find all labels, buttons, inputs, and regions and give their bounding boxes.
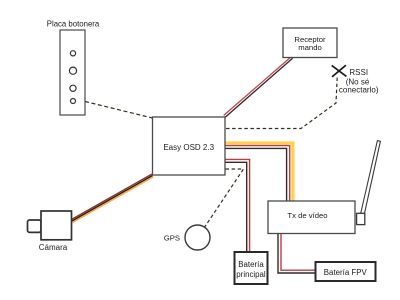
wire yellow: camera ribbon to Easy OSD	[73, 177, 154, 223]
camera lens	[28, 220, 42, 232]
svg-text:conectarlo): conectarlo)	[339, 86, 379, 95]
svg-text:mando: mando	[298, 43, 322, 52]
component box: Easy OSD 2.3	[153, 117, 226, 175]
svg-text:Batería FPV: Batería FPV	[324, 268, 368, 277]
wire red: Easy OSD to Bateria principal	[225, 159, 250, 252]
component box: Tx de video	[268, 201, 355, 234]
svg-text:GPS: GPS	[164, 234, 180, 243]
antenna rod	[361, 141, 381, 214]
component circle: GPS	[185, 225, 210, 250]
svg-text:RSSI: RSSI	[349, 68, 368, 77]
wire dashed: RSSI to Easy OSD (not connected)	[226, 78, 338, 129]
component box: Bateria FPV	[316, 262, 376, 281]
svg-text:principal: principal	[236, 270, 266, 279]
button hole 4	[71, 99, 76, 104]
wire yellow halo: Easy OSD to Tx de video	[225, 143, 293, 201]
component box: Bateria principal	[235, 252, 268, 284]
wire dashed: Placa botonera to Easy OSD	[85, 102, 153, 119]
wire red: Easy OSD to Tx de video	[225, 146, 290, 201]
button hole 1	[70, 51, 75, 56]
button hole 3	[70, 85, 76, 91]
svg-text:Easy OSD 2.3: Easy OSD 2.3	[163, 143, 214, 152]
wire red: Tx de video to Bateria FPV	[281, 234, 315, 270]
component box: Receptor mando	[283, 28, 337, 58]
svg-text:Tx de vídeo: Tx de vídeo	[287, 211, 327, 220]
wire red: Easy OSD to Receptor mando	[224, 57, 291, 115]
svg-text:Batería: Batería	[238, 260, 264, 269]
button hole 2	[69, 67, 76, 74]
wire black: Easy OSD to Receptor mando	[225, 58, 292, 117]
RSSI X mark	[332, 65, 347, 76]
wire black: Tx de video to Bateria FPV	[278, 234, 315, 273]
svg-text:Cámara: Cámara	[39, 243, 68, 252]
component box: Placa botonera	[60, 30, 85, 115]
wire black: Easy OSD to Tx de video	[225, 148, 287, 201]
camera body	[41, 211, 72, 240]
wire dashed: Easy OSD to GPS	[205, 169, 244, 227]
wire red: camera ribbon to Easy OSD	[71, 174, 152, 220]
antenna base	[357, 213, 365, 224]
wire black: Easy OSD to Bateria principal	[225, 162, 247, 252]
wire black: camera ribbon to Easy OSD	[72, 176, 153, 222]
svg-text:Placa botonera: Placa botonera	[47, 20, 100, 29]
wire yellow: Easy OSD to Tx de video	[225, 143, 293, 201]
